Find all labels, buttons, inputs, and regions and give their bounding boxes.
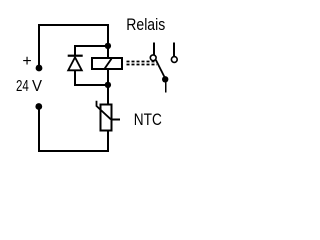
svg-text:24: 24	[16, 78, 29, 95]
svg-text:NTC: NTC	[134, 110, 162, 129]
svg-text:+: +	[22, 53, 31, 70]
svg-text:Relais: Relais	[126, 15, 165, 34]
svg-text:V: V	[32, 78, 42, 95]
